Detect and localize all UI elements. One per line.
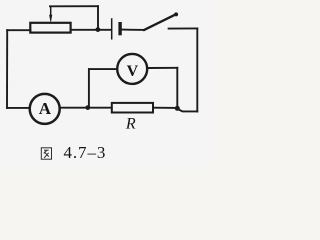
wire: left vertical side <box>6 30 8 108</box>
switch blade tip blob <box>174 12 178 16</box>
wire: right vertical side <box>196 28 198 111</box>
rheostat slider arrow <box>49 6 52 23</box>
resistor R body <box>112 103 153 113</box>
voltmeter V circle <box>117 54 147 84</box>
junction node C <box>85 105 90 110</box>
wire: ammeter to node C to resistor <box>61 107 112 109</box>
svg-text:4.7–3: 4.7–3 <box>64 143 107 162</box>
svg-text:A: A <box>39 99 52 118</box>
wire: resistor to node B <box>153 107 177 109</box>
wire: voltmeter branch left vertical <box>88 69 90 107</box>
junction node A <box>96 27 101 32</box>
wire: battery to switch pivot <box>122 29 144 31</box>
switch S blade (open) <box>144 14 176 30</box>
wire: ammeter left lead <box>7 107 29 109</box>
wire: rheostat right to battery <box>71 29 111 31</box>
junction node B <box>175 106 180 111</box>
wire: voltmeter right lead <box>148 67 177 69</box>
ammeter A circle <box>30 94 60 124</box>
svg-text:R: R <box>125 115 136 132</box>
rheostat body <box>30 23 70 33</box>
wire: voltmeter left lead <box>89 68 117 70</box>
wire: slider tap top horizontal <box>50 5 98 7</box>
wire: bottom right into node B <box>178 109 197 111</box>
svg-text:V: V <box>127 63 139 80</box>
wire: top-left horizontal to rheostat <box>7 29 30 31</box>
battery long plate <box>111 19 113 39</box>
wire: switch right contact to corner <box>169 27 198 29</box>
wire: node B up to voltmeter line <box>176 68 178 108</box>
caption character 图 (drawn) <box>41 148 51 159</box>
wire: tap vertical down to node A <box>97 6 99 29</box>
battery short thick plate <box>118 24 121 34</box>
